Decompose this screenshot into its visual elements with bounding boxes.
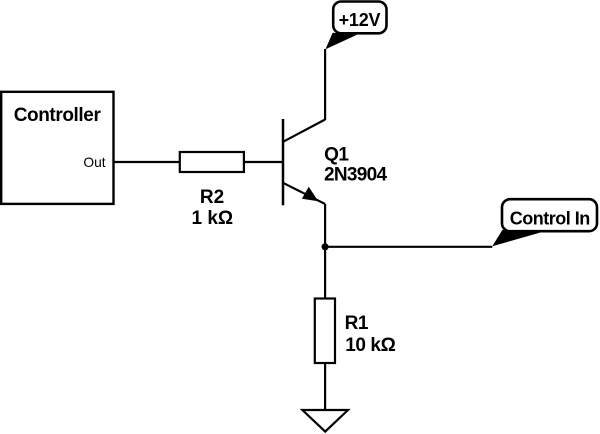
resistor R2 xyxy=(180,152,244,172)
svg-text:Controller: Controller xyxy=(14,105,102,126)
svg-text:Out: Out xyxy=(83,155,105,170)
svg-text:2N3904: 2N3904 xyxy=(324,165,387,186)
wire R1 to ground xyxy=(324,363,326,410)
wire emitter down to R1 xyxy=(324,204,326,299)
transistor Q1 emitter arrow xyxy=(302,187,318,201)
wire node to Control In xyxy=(325,246,492,248)
ground xyxy=(302,410,348,432)
svg-text:Q1: Q1 xyxy=(324,144,349,165)
power flag +12V box xyxy=(333,2,386,34)
wire R2 to base xyxy=(244,161,283,163)
resistor R1 xyxy=(315,299,335,364)
controller box xyxy=(1,92,113,204)
svg-text:1 kΩ: 1 kΩ xyxy=(191,208,233,229)
transistor Q1 collector diagonal xyxy=(283,120,325,142)
transistor Q1 emitter diagonal xyxy=(283,183,325,204)
svg-text:10 kΩ: 10 kΩ xyxy=(345,335,395,356)
svg-text:+12V: +12V xyxy=(339,10,381,30)
svg-text:R1: R1 xyxy=(345,313,369,334)
wire collector up to +12V xyxy=(324,49,326,120)
svg-text:R2: R2 xyxy=(200,187,224,208)
junction node xyxy=(322,243,329,250)
io flag Control In box xyxy=(502,199,597,231)
wire Out pin to R2 xyxy=(114,161,181,163)
io flag Control In pointer xyxy=(492,230,540,246)
power flag +12V pointer xyxy=(326,33,358,50)
transistor Q1 base bar xyxy=(282,119,285,205)
svg-text:Control In: Control In xyxy=(510,208,590,228)
